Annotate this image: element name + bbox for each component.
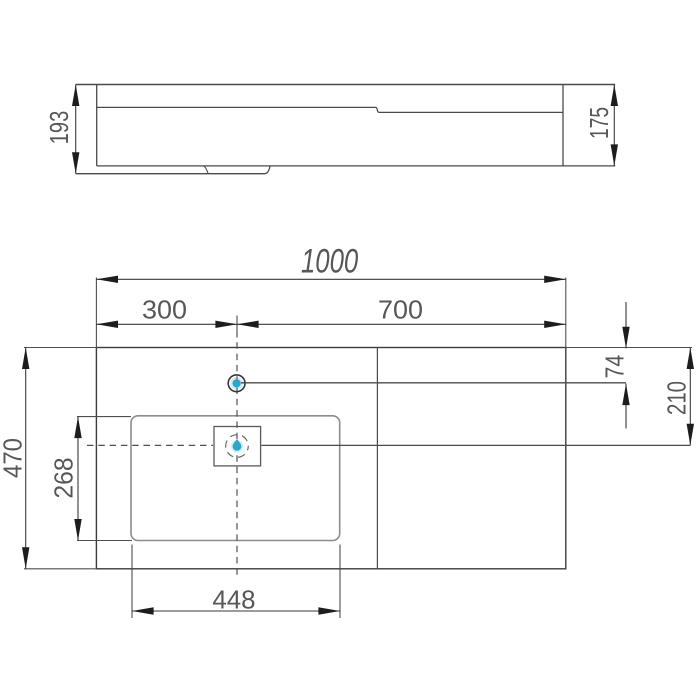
faucet extension line <box>241 382 626 384</box>
svg-text:470: 470 <box>0 438 28 478</box>
dimension 448 label <box>212 585 255 615</box>
dimension 700 left arrow <box>237 321 259 328</box>
drain teal drop <box>231 439 243 452</box>
dimension 210 line <box>689 348 691 446</box>
drain square <box>214 427 261 466</box>
basin outline rounded <box>131 416 340 541</box>
extension line right top <box>565 278 567 348</box>
svg-text:210: 210 <box>662 381 692 415</box>
dimension 210 top arrow <box>687 348 694 370</box>
plan view divider line <box>376 348 378 569</box>
dimension 448 line <box>132 610 340 612</box>
plan view outline <box>96 348 565 569</box>
dimension 1000 right arrow <box>544 276 566 283</box>
vertical centerline dashed <box>236 331 238 577</box>
dimension 268 bottom arrow <box>74 519 81 541</box>
svg-text:300: 300 <box>142 295 187 325</box>
extension 448 right <box>339 545 341 619</box>
dimension 193 bottom arrow <box>72 152 79 174</box>
extension 268 top <box>77 416 131 418</box>
dimension 210 bottom arrow <box>687 424 694 446</box>
dimension 175 bottom arrow <box>611 144 618 166</box>
dimension 300 700 line <box>96 323 565 325</box>
dimension 175 top arrow <box>611 85 618 107</box>
dimension 175 label <box>584 107 614 139</box>
dimension 193 line <box>75 85 77 174</box>
dimension 74 lower line <box>625 384 627 429</box>
faucet hole circle <box>228 375 245 392</box>
dimension 74 label <box>599 355 629 379</box>
dimension 300 left arrow <box>96 321 118 328</box>
dimension 1000 left arrow <box>96 276 118 283</box>
dimension 74 top arrow <box>622 327 629 349</box>
dimension 300 right arrow <box>215 321 237 328</box>
dimension 210 label <box>662 381 692 415</box>
dimension 175 line <box>613 85 615 166</box>
dimension 1000 label <box>301 242 358 280</box>
dimension 470 line <box>25 348 27 569</box>
svg-text:448: 448 <box>212 585 255 615</box>
side view right edge <box>562 85 564 166</box>
side view apron line with step <box>97 107 563 112</box>
side view left edge <box>96 85 98 166</box>
side view bottom inner edge <box>97 165 616 167</box>
extension 448 left <box>131 545 133 619</box>
dimension 74 bottom arrow <box>622 384 629 406</box>
dimension 193 label <box>44 111 74 145</box>
svg-text:74: 74 <box>599 355 629 379</box>
svg-text:268: 268 <box>49 457 79 498</box>
dimension 74 upper line <box>625 302 627 348</box>
dimension 1000 line <box>96 278 565 280</box>
extension 210 top <box>566 347 692 349</box>
drain dashed circle <box>226 435 249 458</box>
extension line left top <box>95 278 97 348</box>
svg-text:700: 700 <box>378 295 423 325</box>
drain centerline solid extension <box>262 444 691 446</box>
horizontal centerline dashed <box>87 444 213 446</box>
dimension 700 label <box>378 295 423 325</box>
dimension 470 bottom arrow <box>22 547 29 569</box>
extension 268 bottom <box>77 540 132 542</box>
dimension 700 right arrow <box>544 321 566 328</box>
dimension 268 label <box>49 457 79 498</box>
extension 470 bottom <box>24 568 96 570</box>
svg-text:193: 193 <box>44 111 74 145</box>
side view bowl corner curve <box>203 166 208 174</box>
extension tick at 300 mark <box>236 316 238 332</box>
dimension 193 top arrow <box>72 85 79 107</box>
dimension 470 label <box>0 438 28 478</box>
dimension 300 label <box>142 295 187 325</box>
faucet hole teal dot <box>230 377 243 390</box>
svg-text:1000: 1000 <box>301 242 358 280</box>
dimension 268 line <box>77 417 79 541</box>
dimension 268 top arrow <box>74 417 81 439</box>
extension 470 top <box>24 347 96 349</box>
svg-text:175: 175 <box>584 107 614 139</box>
dimension 448 left arrow <box>132 607 154 614</box>
side view top edge <box>76 84 616 86</box>
dimension 470 top arrow <box>22 348 29 370</box>
side view bowl bottom edge <box>76 166 270 174</box>
dimension 448 right arrow <box>318 607 340 614</box>
